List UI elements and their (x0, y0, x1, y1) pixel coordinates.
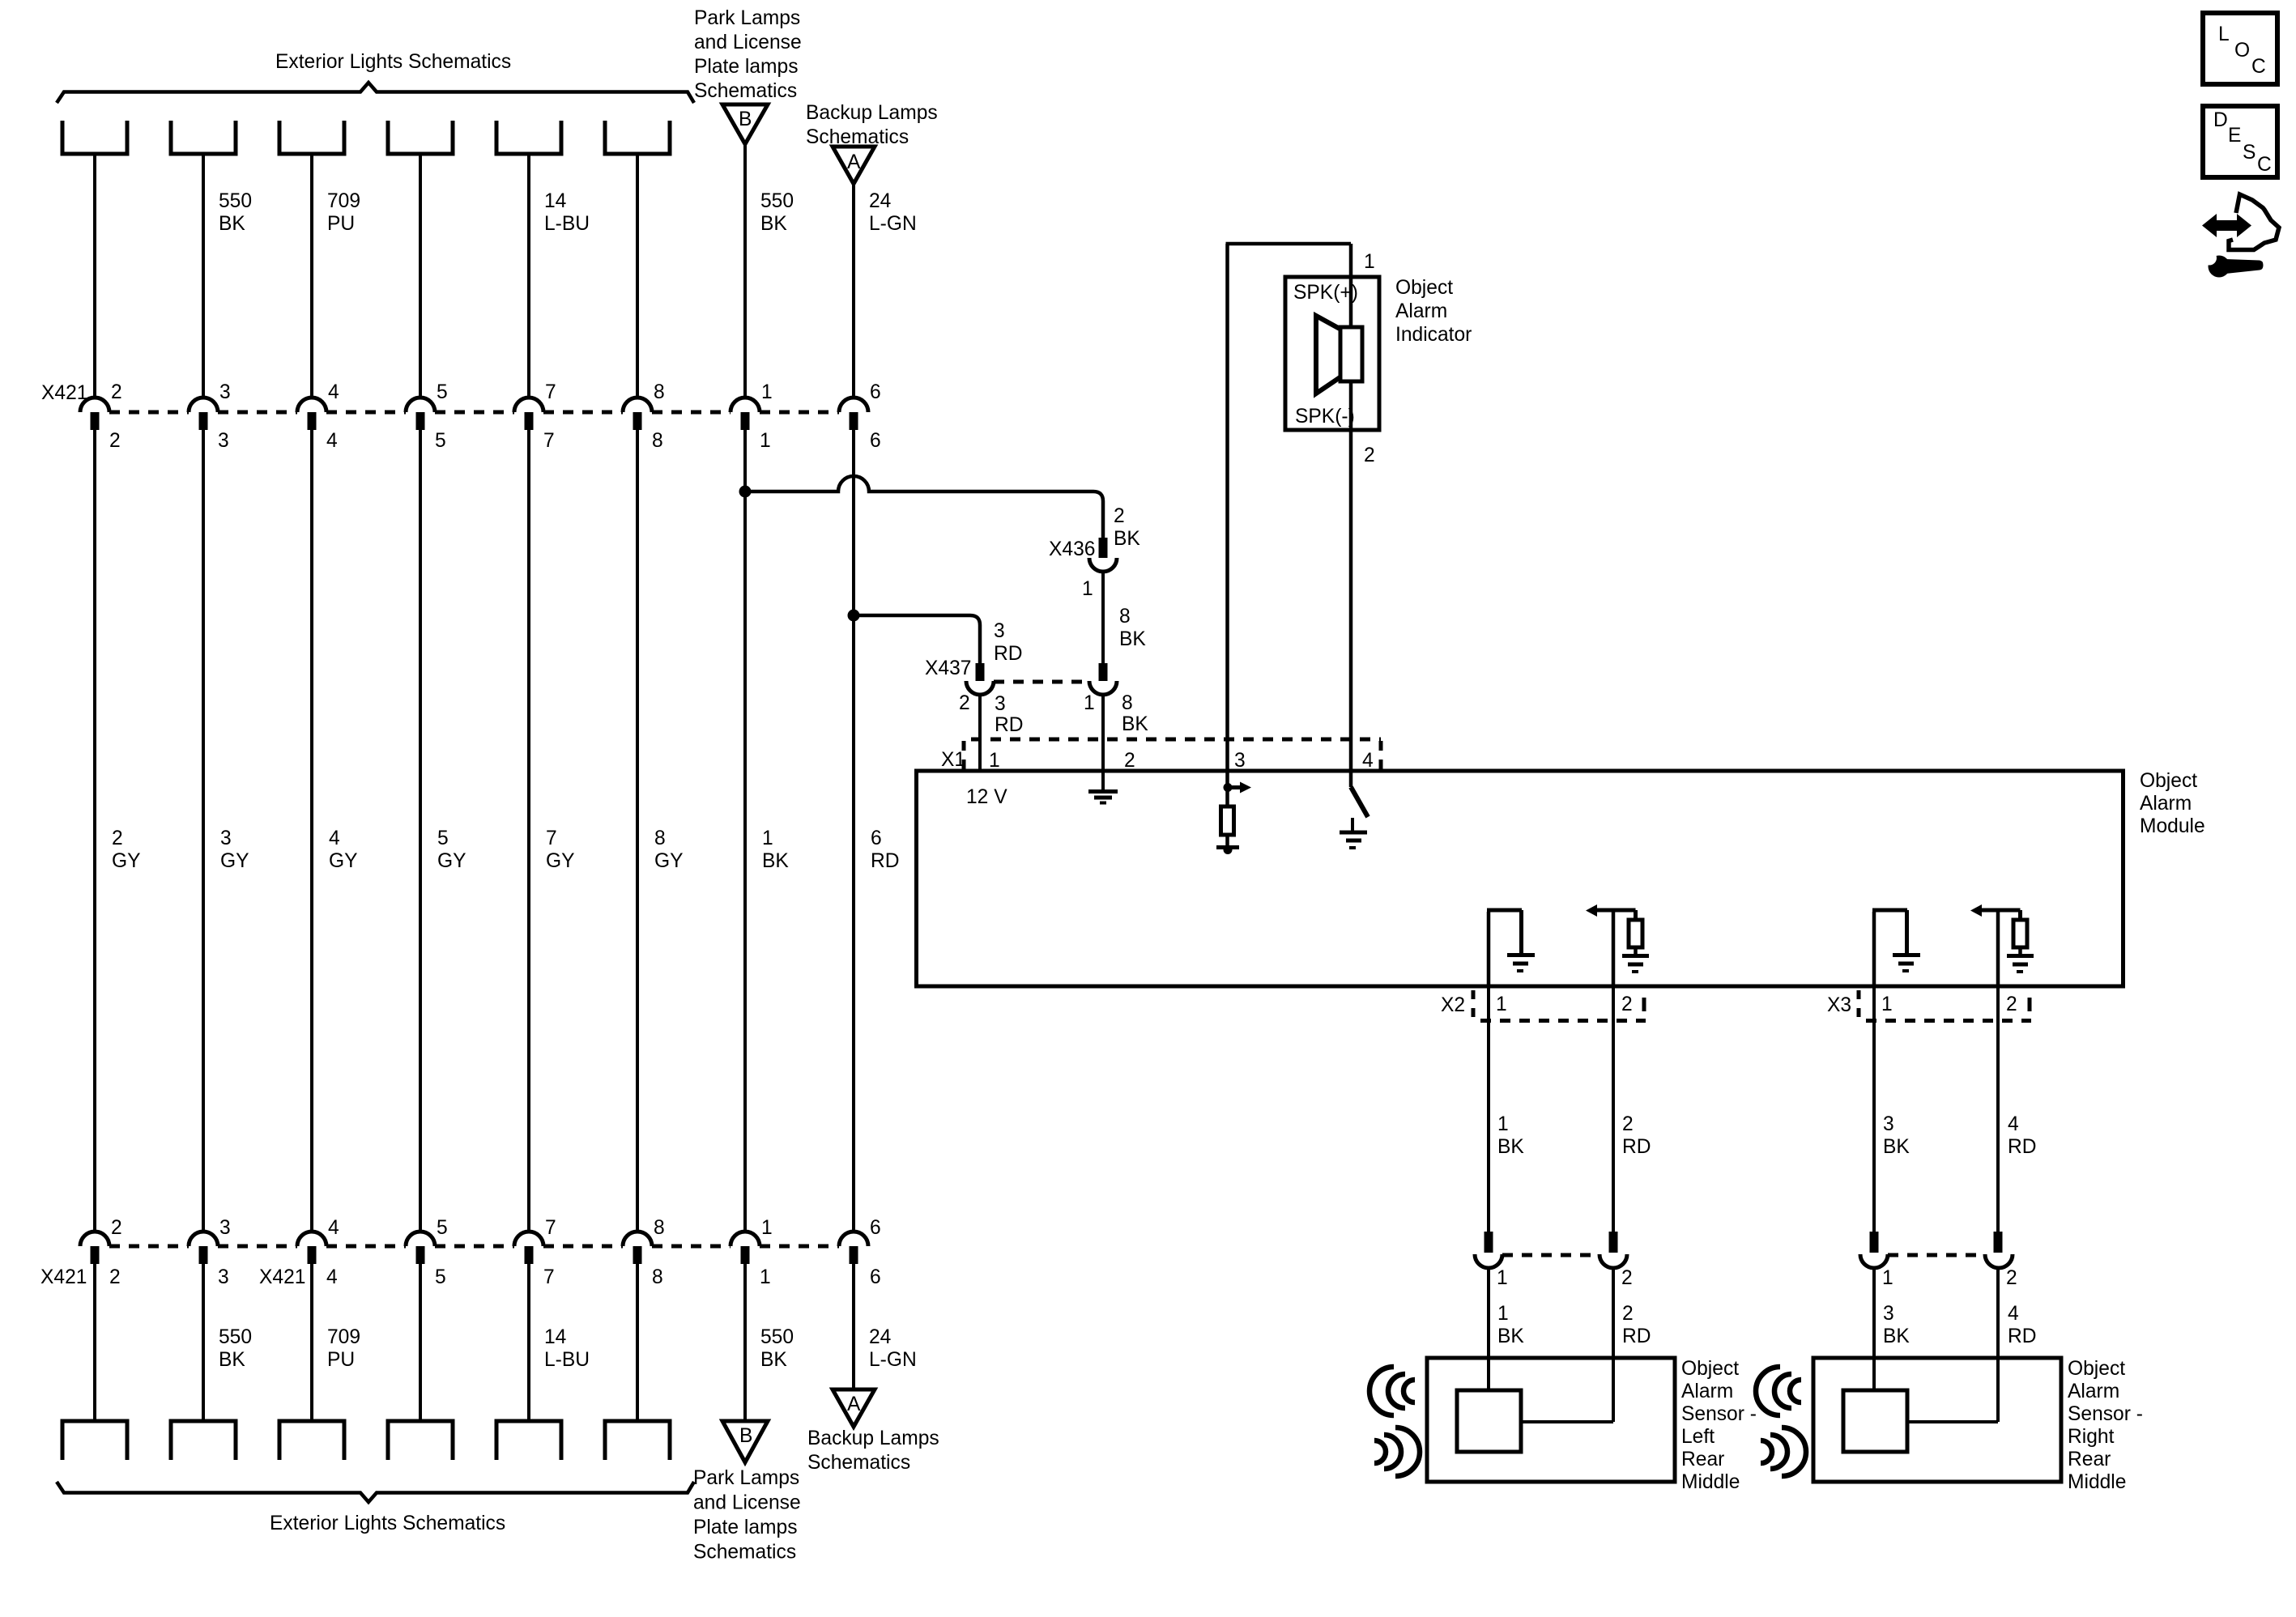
off-page triangle A bottom (833, 1389, 875, 1427)
svg-text:14: 14 (544, 190, 566, 212)
connector X437 pin 1 (1099, 663, 1108, 681)
switch inside module below X1-4 (1349, 772, 1353, 787)
connector C4 bottom (wire 5) (388, 1421, 453, 1460)
svg-text:X437: X437 (925, 657, 971, 679)
svg-text:BK: BK (1497, 1326, 1524, 1347)
connector C2 bottom (wire 3) (171, 1421, 236, 1460)
wire X3-2 to sensor connector (4 RD) (1996, 986, 2000, 1232)
svg-text:SPK(-): SPK(-) (1295, 406, 1355, 428)
svg-text:7: 7 (546, 828, 557, 849)
svg-text:BK: BK (1119, 628, 1146, 650)
svg-text:8: 8 (1119, 606, 1131, 628)
off-page triangle B bottom (722, 1421, 768, 1462)
svg-text:8: 8 (1122, 692, 1133, 714)
wire 5 middle segment (527, 430, 530, 1232)
svg-text:Object: Object (1681, 1358, 1739, 1380)
svg-text:Middle: Middle (2068, 1471, 2126, 1493)
svg-text:5: 5 (437, 828, 449, 849)
svg-text:X421: X421 (259, 1266, 305, 1288)
svg-text:3: 3 (1883, 1303, 1894, 1325)
DESC reference box (2203, 106, 2277, 177)
svg-text:RD: RD (995, 714, 1024, 736)
resistor inside module (X2-2) (1629, 920, 1642, 947)
svg-text:2: 2 (2006, 994, 2017, 1015)
svg-text:Exterior Lights Schematics: Exterior Lights Schematics (275, 51, 511, 73)
connector X421 pin 8 (bottom row) (623, 1232, 652, 1246)
resistor inside module (X3-2) (2013, 920, 2027, 947)
resistor inside module (X1-3) (1221, 806, 1234, 835)
svg-text:3: 3 (995, 693, 1006, 715)
svg-text:1: 1 (760, 430, 771, 452)
connector X421 pin 7 (top row) (514, 398, 543, 412)
svg-text:4: 4 (326, 430, 338, 452)
wire 2 bottom segment (202, 1264, 205, 1421)
wire 8 bottom segment (852, 1264, 855, 1389)
svg-text:8: 8 (654, 1217, 665, 1239)
ground inside module (X2-1) (1507, 955, 1535, 964)
svg-text:BK: BK (219, 213, 245, 235)
wire 1 middle segment (93, 430, 96, 1232)
connector C5 bottom (wire 7) (496, 1421, 561, 1460)
inline connector left sensor pin 2 (1609, 1232, 1618, 1253)
svg-text:Backup Lamps: Backup Lamps (807, 1428, 939, 1449)
svg-text:B: B (739, 109, 752, 130)
svg-text:RD: RD (871, 850, 900, 872)
connector X421 pin 3 (top row) (189, 398, 218, 412)
vehicle direction icon car outline (2229, 194, 2279, 250)
svg-text:6: 6 (871, 828, 882, 849)
speaker driver (1340, 327, 1362, 381)
connector X421 pin 1 (top row) (731, 398, 760, 412)
connector C5 top (wire 7) (496, 121, 561, 154)
svg-text:1: 1 (1497, 1113, 1509, 1135)
svg-text:1: 1 (762, 828, 773, 849)
inline connector left sensor pin 1 (1485, 1232, 1493, 1253)
wire X437 pin2 to module X1-1 (978, 695, 982, 771)
wire 8 (24 L-GN) top segment (852, 184, 855, 398)
wire X437 pin1 to module X1-2 (1101, 695, 1105, 771)
svg-text:Plate lamps: Plate lamps (693, 1517, 798, 1538)
connector X421 pin 2 (top row) (80, 398, 109, 412)
wire 6 bottom segment (636, 1264, 639, 1421)
svg-text:7: 7 (543, 430, 555, 452)
svg-text:2: 2 (959, 692, 970, 714)
wire 3 top segment (310, 154, 313, 398)
wire module X1-3 up to indicator (1225, 244, 1229, 771)
hook to ground inside module (X2-1) (1487, 912, 1491, 986)
svg-text:Object: Object (2068, 1358, 2125, 1380)
wire to right sensor (3 BK) (1872, 1268, 1876, 1390)
connector X421 dashed line (top row) (109, 411, 189, 415)
svg-text:2: 2 (1124, 750, 1135, 772)
svg-text:Object: Object (2140, 770, 2197, 792)
svg-text:L: L (2218, 23, 2230, 45)
svg-text:Indicator: Indicator (1395, 324, 1472, 346)
svg-text:1: 1 (989, 750, 1000, 772)
Object Alarm Sensor Left Rear Middle box (1427, 1358, 1675, 1482)
svg-text:550: 550 (760, 1326, 794, 1348)
svg-text:Sensor -: Sensor - (2068, 1403, 2143, 1425)
connector X421 dashed line (bottom row) (109, 1245, 189, 1249)
junction dot on wire 7 (739, 486, 752, 498)
hook to ground inside module (X3-1) (1872, 912, 1876, 986)
svg-text:5: 5 (437, 1217, 448, 1239)
svg-text:6: 6 (870, 430, 881, 452)
svg-text:X421: X421 (40, 1266, 87, 1288)
wire to left sensor (2 RD) (1612, 1268, 1615, 1422)
connector X437 pin 2 (976, 663, 985, 681)
wire 1 top segment (93, 154, 96, 398)
svg-text:RD: RD (1622, 1136, 1651, 1158)
svg-text:Plate lamps: Plate lamps (694, 56, 799, 78)
svg-text:Alarm: Alarm (2140, 793, 2192, 815)
connector X421 pin 4 (top row) (297, 398, 326, 412)
connector C2 top (wire 3) (171, 121, 236, 154)
svg-text:7: 7 (545, 381, 556, 403)
svg-text:3: 3 (220, 828, 232, 849)
right sensor internal wire (1907, 1420, 1998, 1423)
svg-text:2: 2 (1114, 505, 1125, 527)
svg-text:2: 2 (109, 430, 121, 452)
wire 3 bottom segment (310, 1264, 313, 1421)
ground inside module (X3-2) (2007, 956, 2034, 965)
svg-text:550: 550 (219, 190, 252, 212)
svg-text:Schematics: Schematics (693, 1542, 796, 1564)
right sensor waves upper (1756, 1367, 1780, 1415)
wire 7 middle segment (1 BK) (743, 430, 747, 1232)
junction dot on wire 8 (848, 610, 860, 622)
svg-text:Rear: Rear (1681, 1449, 1724, 1470)
svg-text:1: 1 (760, 1266, 771, 1288)
connector X421 pin 6 (bottom row) (839, 1232, 868, 1246)
svg-text:BK: BK (760, 1349, 787, 1371)
ground inside module (X3-1) (1893, 955, 1920, 964)
svg-text:7: 7 (543, 1266, 555, 1288)
svg-text:GY: GY (112, 850, 141, 872)
wire X2-2 to sensor connector (2 RD) (1612, 986, 1615, 1232)
wire to right sensor (4 RD) (1996, 1268, 2000, 1422)
svg-text:and License: and License (694, 32, 802, 53)
svg-text:1: 1 (1082, 578, 1093, 600)
svg-text:RD: RD (2008, 1136, 2037, 1158)
ground inside module below switch (1351, 818, 1354, 831)
svg-text:SPK(+): SPK(+) (1293, 282, 1358, 304)
connector C3 bottom (wire 4) (279, 1421, 344, 1460)
svg-text:C: C (2257, 154, 2272, 176)
svg-text:2: 2 (1622, 1113, 1634, 1135)
connector X437 dashed line (994, 680, 1089, 684)
ground inside module (X2-2) (1622, 956, 1649, 965)
connector C3 top (wire 4) (279, 121, 344, 154)
svg-text:709: 709 (327, 1326, 360, 1348)
svg-text:550: 550 (760, 190, 794, 212)
right sensor waves lower (1782, 1428, 1806, 1476)
wire 2 top segment (202, 154, 205, 398)
svg-text:3: 3 (1234, 750, 1246, 772)
svg-text:5: 5 (435, 430, 446, 452)
off-page triangle A top (833, 147, 875, 184)
svg-text:4: 4 (328, 1217, 339, 1239)
svg-text:6: 6 (870, 1217, 881, 1239)
svg-text:BK: BK (219, 1349, 245, 1371)
svg-text:3: 3 (218, 1266, 229, 1288)
svg-text:Schematics: Schematics (807, 1452, 910, 1474)
svg-text:Backup Lamps: Backup Lamps (806, 102, 938, 124)
left sensor waves lower (1395, 1428, 1420, 1476)
svg-text:E: E (2228, 125, 2241, 147)
svg-text:PU: PU (327, 213, 355, 235)
svg-text:1: 1 (1364, 251, 1375, 273)
wrench icon (2209, 256, 2230, 278)
brace top (57, 83, 694, 103)
svg-text:4: 4 (2008, 1303, 2019, 1325)
wire X2-1 to sensor connector (1 BK) (1487, 986, 1490, 1232)
wire X3-1 to sensor connector (3 BK) (1872, 986, 1876, 1232)
connector X436 (1099, 538, 1108, 558)
svg-text:1: 1 (761, 1217, 773, 1239)
svg-text:2: 2 (111, 1217, 122, 1239)
svg-text:2: 2 (1621, 994, 1633, 1015)
inline connector right sensor pin 1 (1870, 1232, 1879, 1253)
wire 5 bottom segment (527, 1264, 530, 1421)
svg-text:Middle: Middle (1681, 1471, 1740, 1493)
svg-text:PU: PU (327, 1349, 355, 1371)
wire 6 middle segment (636, 430, 639, 1232)
svg-text:L-BU: L-BU (544, 213, 590, 235)
wire 1 bottom segment (93, 1264, 96, 1421)
svg-text:Sensor -: Sensor - (1681, 1403, 1757, 1425)
wire 2 middle segment (202, 430, 205, 1232)
svg-text:2: 2 (1621, 1267, 1633, 1289)
svg-text:L-GN: L-GN (869, 213, 917, 235)
connector C1 top (wire 2) (62, 121, 127, 154)
wire 8 middle segment (6 RD) (852, 430, 855, 1232)
svg-text:4: 4 (328, 381, 339, 403)
signal arrow and resistor below X1-3 (1225, 772, 1229, 806)
svg-text:X2: X2 (1441, 994, 1465, 1016)
svg-text:4: 4 (2008, 1113, 2019, 1135)
svg-text:BK: BK (1883, 1136, 1910, 1158)
svg-text:3: 3 (219, 1217, 231, 1239)
svg-text:Alarm: Alarm (1681, 1381, 1733, 1402)
svg-text:6: 6 (870, 1266, 881, 1288)
connector C4 top (wire 5) (388, 121, 453, 154)
svg-text:Park Lamps: Park Lamps (694, 7, 800, 29)
svg-text:A: A (847, 1394, 861, 1415)
svg-text:A: A (847, 151, 861, 173)
svg-text:Object: Object (1395, 277, 1453, 299)
svg-text:2: 2 (2006, 1267, 2017, 1289)
wire 6 top segment (636, 154, 639, 398)
svg-text:1: 1 (761, 381, 773, 403)
ground inside module below X1-2 (1101, 772, 1105, 789)
Object Alarm Sensor Right Rear Middle box (1813, 1358, 2061, 1482)
wire through indicator (1349, 277, 1353, 430)
svg-text:3: 3 (994, 620, 1005, 642)
brace bottom (57, 1482, 694, 1502)
svg-text:BK: BK (1114, 528, 1140, 550)
svg-text:RD: RD (2008, 1326, 2037, 1347)
wire 3 middle segment (310, 430, 313, 1232)
wire to left sensor (1 BK) (1487, 1268, 1490, 1390)
connector C6 bottom (wire 8) (605, 1421, 670, 1460)
svg-text:1: 1 (1497, 1303, 1509, 1325)
wire 4 top segment (419, 154, 422, 398)
svg-text:3: 3 (219, 381, 231, 403)
connector X421 pin 6 (top row) (839, 398, 868, 412)
svg-text:8: 8 (654, 828, 666, 849)
wire 4 middle segment (419, 430, 422, 1232)
left sensor waves upper (1370, 1367, 1394, 1415)
inline connector right sensor pin 2 (1994, 1232, 2003, 1253)
svg-text:RD: RD (1622, 1326, 1651, 1347)
svg-text:and License: and License (693, 1492, 801, 1514)
inline connector left sensor dashed line (1502, 1253, 1600, 1257)
svg-text:X3: X3 (1827, 994, 1851, 1016)
svg-text:4: 4 (326, 1266, 338, 1288)
LOC reference box (2203, 13, 2277, 84)
connector X2 dashed line (1480, 1019, 1646, 1023)
vehicle direction icon double arrow (2202, 214, 2251, 237)
svg-text:BK: BK (760, 213, 787, 235)
connector X421 pin 5 (top row) (406, 398, 435, 412)
svg-text:3: 3 (218, 430, 229, 452)
wire 7 (550 BK) top segment (743, 144, 747, 398)
wire from wire 8 to X437 (854, 615, 980, 663)
Object Alarm Module box (917, 771, 2123, 986)
wire 5 top segment (527, 154, 530, 398)
svg-text:1: 1 (1497, 1267, 1508, 1289)
svg-text:D: D (2213, 109, 2228, 131)
connector X421 pin 4 (bottom row) (297, 1232, 326, 1246)
svg-text:X421: X421 (41, 382, 87, 404)
svg-text:1: 1 (1881, 994, 1893, 1015)
svg-text:12 V: 12 V (966, 786, 1007, 808)
svg-text:GY: GY (329, 850, 358, 872)
connector X421 pin 1 (bottom row) (731, 1232, 760, 1246)
svg-text:Alarm: Alarm (2068, 1381, 2119, 1402)
svg-text:7: 7 (545, 1217, 556, 1239)
svg-text:2: 2 (111, 381, 122, 403)
svg-text:Alarm: Alarm (1395, 300, 1447, 322)
connector C6 top (wire 8) (605, 121, 670, 154)
svg-text:Module: Module (2140, 815, 2205, 837)
connector X421 pin 2 (bottom row) (80, 1232, 109, 1246)
wire indicator pin 2 to module X1-4 (1349, 430, 1353, 771)
wire 4 bottom segment (419, 1264, 422, 1421)
left sensor inner element (1457, 1390, 1521, 1452)
svg-text:8: 8 (654, 381, 665, 403)
svg-text:L-BU: L-BU (544, 1349, 590, 1371)
svg-text:709: 709 (327, 190, 360, 212)
svg-text:3: 3 (1883, 1113, 1894, 1135)
svg-text:BK: BK (1497, 1136, 1524, 1158)
svg-text:14: 14 (544, 1326, 566, 1348)
svg-text:Exterior Lights Schematics: Exterior Lights Schematics (270, 1513, 505, 1534)
wire X436 to X437 right (8 BK) (1101, 572, 1105, 663)
svg-text:L-GN: L-GN (869, 1349, 917, 1371)
svg-text:2: 2 (1622, 1303, 1634, 1325)
connector X421 pin 5 (bottom row) (406, 1232, 435, 1246)
connector C1 bottom (wire 2) (62, 1421, 127, 1460)
svg-text:Schematics: Schematics (694, 80, 797, 102)
svg-text:Right: Right (2068, 1426, 2115, 1448)
svg-text:BK: BK (762, 850, 789, 872)
svg-text:GY: GY (546, 850, 575, 872)
off-page triangle B top (722, 104, 768, 144)
svg-text:B: B (739, 1425, 752, 1447)
svg-text:GY: GY (437, 850, 466, 872)
svg-text:X436: X436 (1049, 538, 1095, 560)
inline connector right sensor dashed line (1888, 1253, 1985, 1257)
wire from wire 7 to X436 (with hop over wire 8) (745, 476, 1103, 539)
svg-text:RD: RD (994, 643, 1023, 665)
svg-text:1: 1 (1496, 994, 1507, 1015)
wire top horizontal to indicator pin 1 (1226, 242, 1352, 246)
svg-text:S: S (2243, 142, 2256, 164)
svg-text:C: C (2251, 56, 2266, 78)
left sensor internal wire (1521, 1420, 1613, 1423)
Object Alarm Indicator box (1285, 277, 1379, 430)
svg-text:5: 5 (437, 381, 448, 403)
svg-text:2: 2 (109, 1266, 121, 1288)
svg-text:2: 2 (112, 828, 123, 849)
svg-text:1: 1 (1084, 692, 1095, 714)
svg-text:8: 8 (652, 1266, 663, 1288)
signal arrow inside module (X2-2) (1612, 910, 1616, 986)
signal arrow inside module (X3-2) (1996, 910, 2000, 986)
svg-text:Park Lamps: Park Lamps (693, 1467, 799, 1489)
svg-text:Rear: Rear (2068, 1449, 2111, 1470)
svg-text:BK: BK (1122, 713, 1148, 735)
connector X421 pin 3 (bottom row) (189, 1232, 218, 1246)
connector X421 pin 8 (top row) (623, 398, 652, 412)
svg-text:5: 5 (435, 1266, 446, 1288)
speaker horn (1316, 316, 1341, 394)
svg-text:4: 4 (1362, 750, 1374, 772)
svg-text:24: 24 (869, 1326, 891, 1348)
connector X421 pin 7 (bottom row) (514, 1232, 543, 1246)
svg-text:8: 8 (652, 430, 663, 452)
connector X3 dashed line (1866, 1019, 2031, 1023)
svg-text:24: 24 (869, 190, 891, 212)
svg-text:GY: GY (220, 850, 249, 872)
connector X1 dashed line (971, 738, 1381, 742)
wire 7 bottom segment (743, 1264, 747, 1421)
svg-text:4: 4 (329, 828, 340, 849)
wire indicator pin 1 (1349, 244, 1353, 277)
svg-text:1: 1 (1882, 1267, 1893, 1289)
svg-text:GY: GY (654, 850, 684, 872)
svg-text:O: O (2234, 40, 2250, 62)
right sensor inner element (1843, 1390, 1907, 1452)
svg-text:550: 550 (219, 1326, 252, 1348)
svg-text:Left: Left (1681, 1426, 1715, 1448)
svg-text:BK: BK (1883, 1326, 1910, 1347)
svg-text:2: 2 (1364, 445, 1375, 466)
svg-text:6: 6 (870, 381, 881, 403)
